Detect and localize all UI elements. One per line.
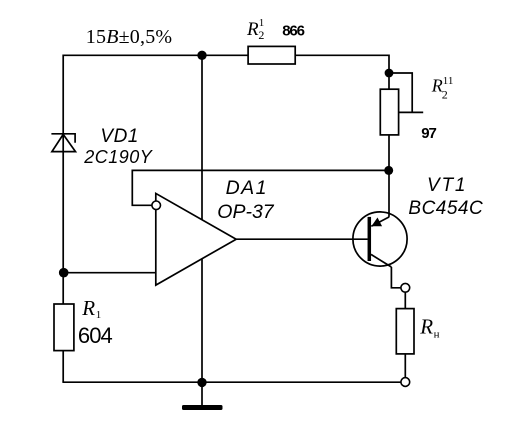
op-amp inverting input bubble xyxy=(152,201,161,210)
wire: left rail (supply to zener to R1 to bottom) xyxy=(62,55,64,383)
svg-text:VD1: VD1 xyxy=(100,126,138,147)
zener diode VD1 xyxy=(51,134,75,152)
transistor VT1 xyxy=(353,212,407,267)
svg-text:R: R xyxy=(419,315,433,339)
label: R2' xyxy=(246,17,264,42)
svg-text:BC454C: BC454C xyxy=(408,198,483,219)
svg-text:2: 2 xyxy=(258,28,264,42)
wire: non-inverting input from zener node xyxy=(63,272,156,274)
resistor R2'' (97) xyxy=(380,89,398,135)
svg-text:97: 97 xyxy=(421,125,436,142)
svg-text:1: 1 xyxy=(96,309,102,321)
node: R2'' top junction xyxy=(385,69,394,78)
svg-text:2C190Y: 2C190Y xyxy=(83,147,154,167)
resistor Rn (load) xyxy=(396,309,414,354)
resistor R2' (866) xyxy=(248,46,295,64)
wire: feedback from emitter node to inverting input xyxy=(132,170,388,205)
svg-text:н: н xyxy=(434,328,440,340)
svg-text:866: 866 xyxy=(282,23,304,40)
wire: ground stub xyxy=(201,382,203,406)
wire: top +15V rail xyxy=(63,54,389,56)
wire: middle vertical (top rail to bottom rail, behind op-amp) xyxy=(201,55,203,382)
svg-text:604: 604 xyxy=(78,323,113,348)
label: Rn xyxy=(419,315,439,341)
svg-text:OP-37: OP-37 xyxy=(217,201,275,223)
wire: right vertical (top rail through R2'' to transistor emitter) xyxy=(388,55,390,217)
label: R1 xyxy=(81,296,101,321)
terminal: output bottom (open circle) xyxy=(401,378,410,387)
op-amp DA1 triangle xyxy=(156,193,236,285)
label: R2'' xyxy=(431,75,454,101)
node: bottom rail junction xyxy=(197,378,206,387)
wire: collector to output terminal xyxy=(391,267,401,288)
resistor R1 (604) xyxy=(54,304,74,351)
svg-text:VT1: VT1 xyxy=(427,175,467,196)
wire: bottom ground rail xyxy=(62,381,401,383)
svg-text:11: 11 xyxy=(443,75,454,87)
svg-text:2: 2 xyxy=(442,87,448,101)
svg-text:R: R xyxy=(81,296,95,320)
svg-text:15В±0,5%: 15В±0,5% xyxy=(86,26,172,48)
node: top rail junction xyxy=(197,51,206,60)
node: feedback junction xyxy=(384,166,393,175)
wire: op-amp output to transistor base xyxy=(236,238,367,240)
svg-text:DA1: DA1 xyxy=(226,177,268,199)
wire: R2'' wiper tap xyxy=(389,73,423,112)
ground xyxy=(182,405,223,410)
wire: Rn to bottom terminal xyxy=(404,354,406,378)
node: zener / R1 junction xyxy=(59,268,69,278)
svg-text:R: R xyxy=(246,19,259,40)
wire: output terminal to Rn xyxy=(404,292,406,309)
terminal: output top (open circle) xyxy=(401,283,410,292)
